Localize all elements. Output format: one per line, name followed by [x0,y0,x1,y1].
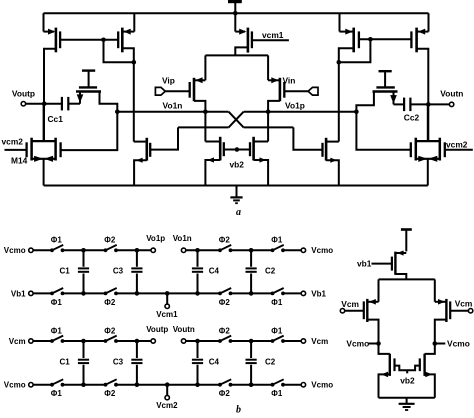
node dot: center tap r2 [165,382,170,387]
wire r1 [231,292,273,294]
wire: Vo1n to M14 second gate [61,112,118,150]
wire: Voutn vertical [427,55,429,142]
wire: differential pair tail bar [205,55,268,80]
wire r1 [63,292,106,294]
wire: Vin to gate [284,90,308,92]
wire: cap stem C1 r1 [83,250,85,293]
svg-text:Cc2: Cc2 [404,112,420,122]
terminal Vcm (right, top row r2) [301,337,328,346]
switch phi2 bottom-left r1 [104,288,118,295]
wire: top row left segment r2 [33,340,52,342]
node: Vcmo right dot [433,341,438,346]
switch phi1 bottom-right r2 [271,379,285,386]
svg-text:Vcmo: Vcmo [346,339,369,349]
svg-text:C4: C4 [209,358,220,367]
svg-text:vb2: vb2 [230,160,245,170]
terminal Voutp [12,89,35,106]
switch phi2 bottom-left r2 [104,379,118,386]
switch phi1 top-right r1 [271,245,285,252]
nmos M-bias-cascode-right [420,344,435,398]
svg-text:vcm2: vcm2 [2,136,24,146]
wire: top row left segment r1 [33,249,52,251]
wire r2 [283,340,301,342]
pmos M-left-inner (diode-connected) [118,13,134,62]
svg-text:Φ2: Φ2 [219,389,231,398]
terminal Vb1 (left, bottom row r1) [11,289,33,298]
node: Vo1p-Rz junction dot [354,109,359,114]
capacitor C2 (r2) [246,360,257,363]
svg-text:Voutp: Voutp [146,325,168,334]
terminal Vcmo (left, bottom row r2) [4,381,33,390]
terminal Vo1n r1 [173,234,192,252]
wire: vb2 gate wire [224,149,250,151]
svg-text:Φ1: Φ1 [51,389,63,398]
svg-text:Vcmo: Vcmo [311,246,333,255]
switch phi2 bottom-right r1 [218,288,232,295]
wire: Cc1 to zero nulling transistor [68,103,80,105]
pmos M2 (input Vin) [268,77,284,111]
VDD supply symbol (bias circuit) [401,230,412,252]
switch phi2 bottom-right r2 [218,379,232,386]
VDD supply symbol (top center) [228,2,242,14]
wire: vb2 gate jog (bias) [395,366,420,374]
svg-text:Vip: Vip [162,76,175,86]
terminal Vcm1 [156,293,178,318]
svg-text:Vo1n: Vo1n [173,234,192,243]
wire: cap stem C4 r2 [197,341,199,385]
wire: vcm2 gate feed right [445,149,473,151]
switch phi2 top-right r2 [218,336,232,343]
transistor Rz-left (gate-up mosfet) [76,71,117,112]
nmos M-cascode-left (vb2) [205,112,223,186]
wire: cross-couple lower left [178,126,229,128]
terminal Voutp r2 [146,325,168,343]
node dot r1 [135,248,140,253]
svg-text:M14: M14 [11,156,28,166]
wire: right first-stage output vertical [338,62,340,141]
nmos M-bias-cascode-left [379,344,395,398]
terminal Voutn r2 [173,325,195,343]
wire r2 [116,340,151,342]
svg-text:C3: C3 [113,266,124,275]
svg-text:Vb1: Vb1 [311,289,326,298]
svg-text:Φ1: Φ1 [271,298,283,307]
svg-text:Vcmo: Vcmo [4,381,26,390]
node dot r1 [249,291,254,296]
switch phi2 top-left r1 [104,245,118,252]
wire r1 [283,292,301,294]
wire: Vo1p horizontal [244,111,357,113]
wire r2 [186,340,220,342]
svg-text:C1: C1 [60,358,71,367]
terminal Vcm (bias right) [455,299,473,313]
svg-text:Vcm: Vcm [9,337,26,346]
wire: cap stem C2 r2 [250,341,252,385]
terminal Vcmo (right, bottom row r2) [301,381,333,390]
pmos M1 (input Vip) [190,77,206,111]
svg-text:b: b [236,405,241,416]
wire: left first-stage output vertical [133,62,135,141]
wire: Vcmo left stub [368,343,379,345]
terminal Vcmo (right, top row r1) [301,246,333,255]
capacitor C3 (r2) [131,360,142,363]
wire: vcm2 gate feed left [5,149,27,151]
svg-text:Φ1: Φ1 [271,236,283,245]
terminal Vcm (bias left) [340,299,359,313]
switch phi1 top-left r1 [50,245,64,252]
wire r1 [231,249,273,251]
wire: Voutn node [410,103,449,105]
switch phi1 bottom-left r2 [50,379,64,386]
svg-text:Voutn: Voutn [173,325,195,334]
node: Voutp junction dot [42,101,47,106]
wire: vcm1 gate stub [252,39,289,41]
svg-text:Vcm: Vcm [311,337,328,346]
node: Voutn junction dot [426,102,431,107]
pmos M-vcm1 (tail current source) [235,13,252,55]
svg-text:a: a [236,207,241,218]
pmos M-right-outer (top-right mirror load) [411,13,428,55]
port Vin [283,76,319,96]
wire: bottom row left segment r1 [33,292,52,294]
wire: ground rail (section a) [44,185,428,187]
transistor Rz-right (gate-up mosfet) [356,71,404,112]
wire: left driver gate from cross-couple [150,127,178,149]
switch phi1 bottom-left r1 [50,288,64,295]
svg-text:vcm2: vcm2 [446,139,468,149]
svg-text:Vcmo: Vcmo [447,339,470,349]
svg-text:Vo1p: Vo1p [285,101,305,111]
wire: vb1 gate stub [372,263,392,265]
wire r2 [116,384,220,386]
pmos M-vb1 [392,250,406,279]
ground symbol (section a) [230,186,242,204]
wire: cap stem C2 r1 [250,250,252,293]
pmos M-bias-right (Vcm input) [435,299,450,344]
node: Vo1p diff-drain junction dot [266,109,271,114]
node dot r2 [195,382,200,387]
node dot r1 [195,291,200,296]
terminal Voutn [440,88,463,106]
node: Vcmo left dot [376,341,381,346]
svg-text:Φ2: Φ2 [104,326,116,335]
wire: Vo1p to right output tail gate [356,112,410,150]
svg-text:Φ2: Φ2 [219,236,231,245]
switch phi1 top-left r2 [50,336,64,343]
svg-text:Φ2: Φ2 [219,326,231,335]
svg-text:Vcm1: Vcm1 [156,310,178,319]
transistor M-right-tail (dual-gate nmos, vcm2) [411,104,445,185]
switch phi1 bottom-right r1 [271,288,285,295]
wire r1 [63,249,106,251]
capacitor C4 (r1) [192,268,203,271]
svg-text:C2: C2 [265,358,276,367]
svg-text:Vcm: Vcm [455,299,473,309]
node dot r2 [249,382,254,387]
svg-text:Vo1n: Vo1n [163,101,183,111]
svg-text:Φ1: Φ1 [51,326,63,335]
wire r1 [116,292,220,294]
nmos M-driver-left (second stage) [134,138,150,186]
capacitor C1 (r2) [78,360,89,363]
svg-text:Vcm: Vcm [341,299,359,309]
svg-text:Φ1: Φ1 [271,389,283,398]
wire: diode connection left mirror [104,40,134,63]
pmos M-right-inner (diode-connected) [339,13,359,62]
capacitor Cc1 [48,97,69,124]
ground symbol (bias circuit) [399,398,415,410]
wire: Vip to gate [165,90,189,92]
node: Vo1n diff-drain junction dot [203,109,208,114]
capacitor C1 (r1) [78,268,89,271]
wire r1 [186,249,220,251]
transistor M14 (dual-gate nmos, vcm2) [27,104,61,186]
wire: cap stem C4 r1 [197,250,199,293]
node: gate-wire junction dot [101,38,106,43]
terminal Vcmo (left, top row r1) [4,246,33,255]
svg-text:Vo1p: Vo1p [146,234,165,243]
wire: cap stem C1 r2 [83,341,85,385]
switch phi1 top-right r2 [271,336,285,343]
svg-text:Voutn: Voutn [440,88,463,98]
node: Vo1n-Rz junction dot [115,109,120,114]
node: right gate-wire junction dot [368,37,373,42]
terminal Vcm (left, top row r2) [9,337,33,346]
switch phi2 top-left r2 [104,336,118,343]
wire: cross-coupling X [229,112,244,128]
nmos M-cascode-right (vb2) [250,112,268,186]
svg-text:C3: C3 [113,358,124,367]
pmos M-left-outer (top-left mirror load) [44,13,61,55]
wire: gate wire of top-right pmos pair [359,38,412,40]
wire: diode connection right mirror [339,39,371,62]
svg-text:Cc1: Cc1 [48,114,64,124]
capacitor C4 (r2) [192,360,203,363]
node dot r1 [249,248,254,253]
node dot r2 [195,339,200,344]
svg-text:vb2: vb2 [400,376,415,386]
node dot r1 [135,291,140,296]
wire r2 [63,340,106,342]
svg-text:Φ2: Φ2 [104,298,116,307]
wire r1 [283,249,301,251]
node dot: center tap r1 [165,291,170,296]
svg-text:vb1: vb1 [357,259,372,269]
capacitor Cc2 [404,98,420,123]
node dot r1 [81,291,86,296]
wire: bias tail bar [379,279,435,301]
svg-text:Vcmo: Vcmo [4,246,26,255]
wire r1 [116,249,151,251]
node dot r1 [195,248,200,253]
terminal Vcm2 [156,385,178,410]
wire: bottom row left segment r2 [33,384,52,386]
svg-text:C4: C4 [209,266,220,275]
pmos M-bias-left (Vcm input) [364,299,379,344]
svg-text:Φ1: Φ1 [51,236,63,245]
wire: cap stem C3 r2 [136,341,138,385]
wire r2 [231,384,273,386]
wire: cross-couple lower right [244,126,294,128]
wire r2 [283,384,301,386]
node dot r2 [81,382,86,387]
svg-text:Φ1: Φ1 [271,326,283,335]
terminal Vo1p r1 [146,234,165,252]
capacitor C3 (r1) [131,268,142,271]
wire: Voutp vertical (pmos drain to M14 drain) [43,55,45,142]
wire: bias ground rail [379,397,435,399]
capacitor C2 (r1) [246,268,257,271]
wire: VDD top rail [44,12,429,14]
wire: cap stem C3 r1 [136,250,138,293]
svg-text:vcm1: vcm1 [262,30,284,40]
node: right mirror drain junction dot [337,60,342,65]
wire r2 [63,384,106,386]
node dot r2 [249,339,254,344]
wire: gate wire of top-left pmos pair [60,39,118,41]
node: vb2 gate junction dot [235,147,240,152]
node: left mirror drain junction dot [132,60,137,65]
svg-text:Φ1: Φ1 [51,298,63,307]
switch phi2 top-right r1 [218,245,232,252]
wire: Vo1n horizontal [117,111,228,113]
wire: Vcmo right stub [435,343,446,345]
wire: Vcm left to gate [345,310,364,312]
svg-text:Vcm2: Vcm2 [156,401,178,410]
svg-text:C1: C1 [60,266,71,275]
node dot r2 [81,339,86,344]
svg-text:Voutp: Voutp [12,89,35,99]
node dot r2 [135,339,140,344]
svg-text:Φ2: Φ2 [219,298,231,307]
svg-text:C2: C2 [265,266,276,275]
svg-text:Φ2: Φ2 [104,389,116,398]
wire: Voutp node [26,103,61,105]
node dot r2 [135,382,140,387]
nmos M-driver-right (second stage) [293,127,338,185]
node dot r1 [81,248,86,253]
terminal Vb1 (right, bottom row r1) [301,289,326,298]
node: VDD rail junction dot [233,11,238,16]
wire: Vcm right to gate [450,310,468,312]
port Vip [155,76,174,96]
svg-text:Φ2: Φ2 [104,236,116,245]
svg-text:Vcmo: Vcmo [311,381,333,390]
wire r2 [231,340,273,342]
svg-text:Vb1: Vb1 [11,289,26,298]
